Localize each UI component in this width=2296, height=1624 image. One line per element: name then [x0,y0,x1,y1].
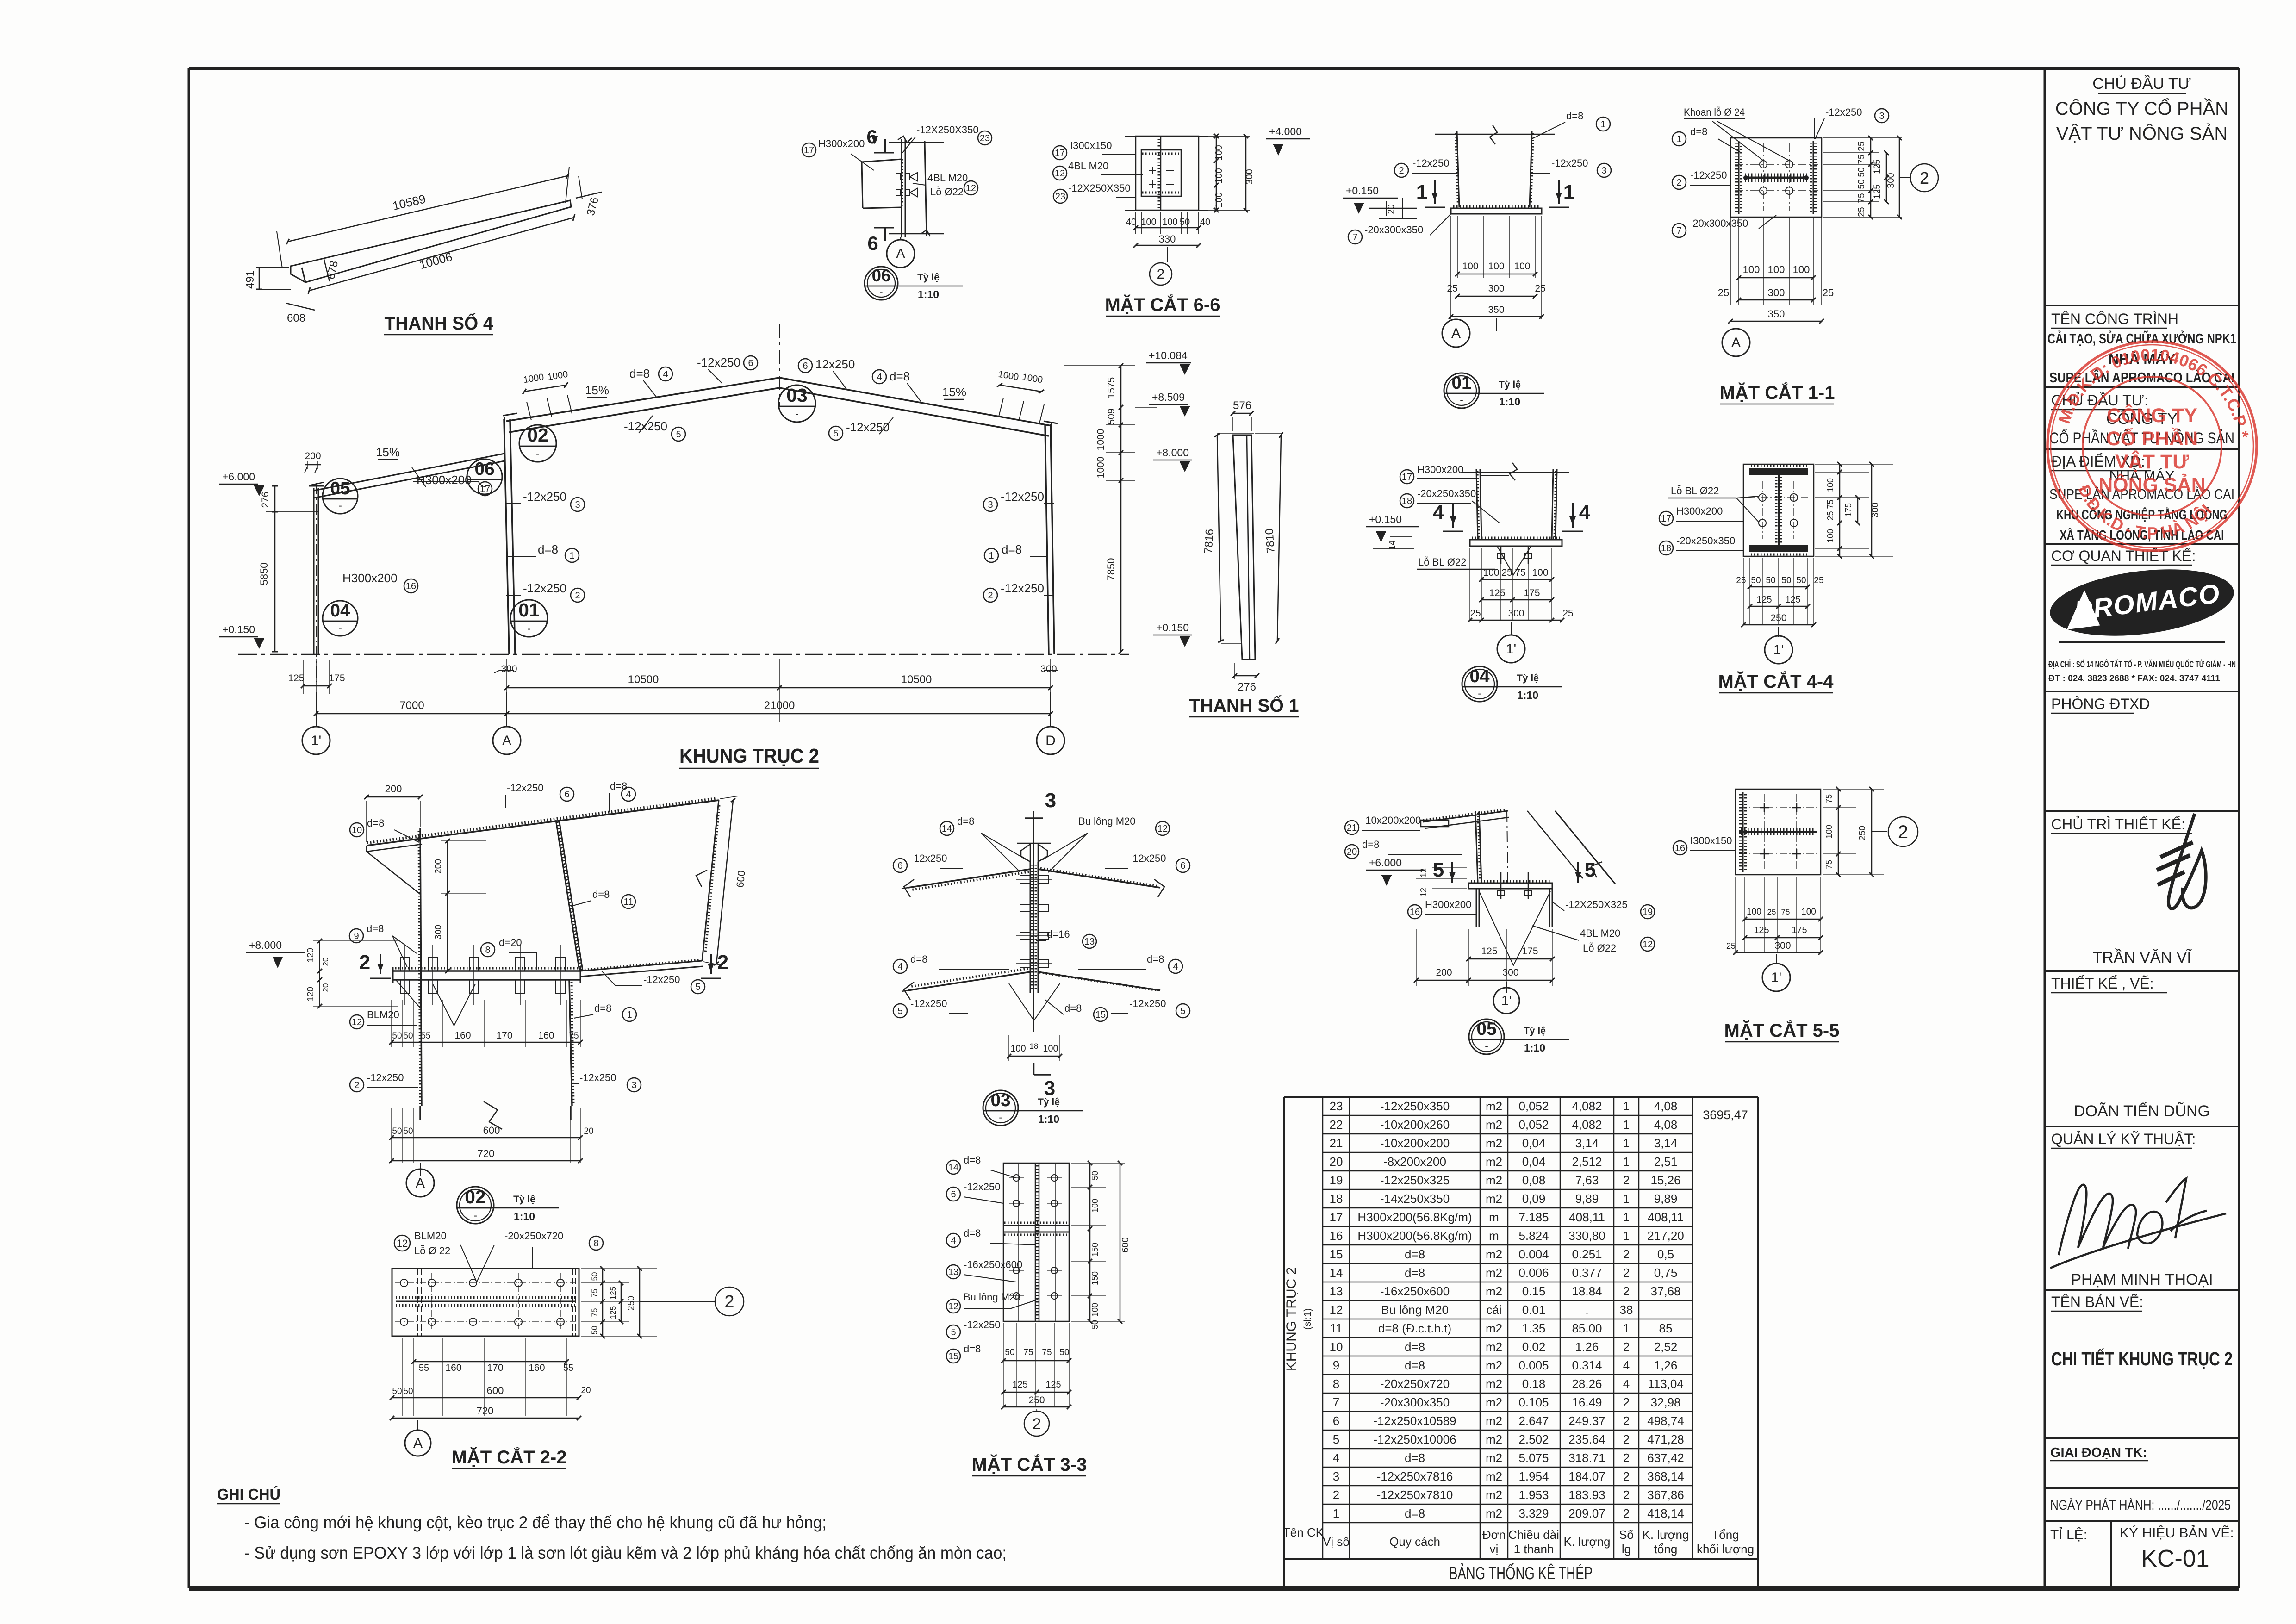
svg-text:MẶT CẮT 6-6: MẶT CẮT 6-6 [1105,294,1220,315]
svg-text:m2: m2 [1486,1488,1502,1502]
svg-text:CƠ QUAN THIẾT KẾ:: CƠ QUAN THIẾT KẾ: [2051,548,2196,564]
svg-text:15: 15 [948,1351,958,1362]
svg-text:1: 1 [627,1010,632,1020]
svg-text:55: 55 [419,1363,429,1373]
svg-text:25: 25 [1857,141,1867,151]
svg-text:21: 21 [1330,1136,1343,1150]
svg-text:5: 5 [951,1327,956,1338]
svg-text:25: 25 [1718,287,1729,299]
svg-text:8: 8 [485,945,490,955]
svg-text:491: 491 [244,270,256,289]
svg-text:25: 25 [1447,283,1457,294]
svg-text:3,14: 3,14 [1575,1136,1599,1150]
svg-text:9,89: 9,89 [1654,1192,1678,1206]
svg-text:-12x250: -12x250 [624,419,667,433]
svg-text:d=16: d=16 [1047,928,1070,940]
svg-text:10500: 10500 [901,673,932,686]
svg-text:318.71: 318.71 [1568,1451,1605,1465]
svg-text:10: 10 [352,825,362,835]
svg-text:0,04: 0,04 [1522,1155,1546,1169]
svg-text:38: 38 [1620,1303,1633,1317]
svg-text:0.006: 0.006 [1518,1266,1549,1280]
svg-text:16: 16 [1675,843,1685,853]
svg-text:55: 55 [563,1363,573,1373]
svg-text:-: - [999,1111,1002,1123]
svg-text:1:10: 1:10 [1499,396,1520,408]
svg-text:m2: m2 [1486,1247,1502,1261]
svg-text:125: 125 [1756,595,1772,605]
svg-text:5: 5 [833,429,838,439]
svg-text:7.185: 7.185 [1518,1210,1549,1224]
svg-text:25: 25 [1823,287,1834,299]
svg-text:160: 160 [454,1030,471,1041]
svg-text:2: 2 [724,1292,734,1312]
svg-text:-12x250: -12x250 [1001,490,1044,504]
svg-text:4: 4 [1333,1451,1339,1465]
svg-text:d=8: d=8 [1405,1340,1425,1354]
svg-text:K. lượng: K. lượng [1643,1528,1689,1542]
svg-text:6: 6 [564,790,569,800]
svg-text:200: 200 [434,859,443,874]
svg-text:H300x200: H300x200 [818,138,865,149]
svg-text:-12x250x7816: -12x250x7816 [1377,1469,1453,1483]
svg-text:300: 300 [501,664,517,674]
svg-text:600: 600 [1120,1237,1131,1252]
svg-text:50: 50 [590,1326,599,1335]
svg-text:m2: m2 [1486,1136,1502,1150]
svg-text:-12x250: -12x250 [964,1319,1001,1331]
svg-text:Khoan lỗ Ø 24: Khoan lỗ Ø 24 [1684,106,1745,118]
svg-text:+8.509: +8.509 [1152,391,1185,403]
svg-text:Số: Số [1619,1528,1634,1542]
svg-text:-12x250: -12x250 [523,490,566,504]
svg-text:25 75: 25 75 [1826,499,1835,520]
svg-text:0.15: 0.15 [1522,1284,1546,1298]
svg-text:21: 21 [1347,823,1357,833]
svg-text:+0.150: +0.150 [1369,513,1402,525]
svg-text:17: 17 [1055,148,1065,158]
svg-text:-: - [338,499,342,511]
svg-text:+8.000: +8.000 [1156,447,1189,459]
svg-text:1000: 1000 [1095,457,1106,479]
svg-text:ĐT : 024. 3823 2688 * FAX: 024: ĐT : 024. 3823 2688 * FAX: 024. 3747 411… [2048,674,2220,684]
svg-text:Tỳ lệ: Tỳ lệ [1517,673,1539,684]
svg-text:-12x250: -12x250 [643,974,680,985]
svg-text:-12x250: -12x250 [1690,169,1727,181]
svg-text:125: 125 [1873,159,1882,174]
svg-text:0,75: 0,75 [1654,1266,1678,1280]
svg-text:13: 13 [1084,937,1095,947]
svg-text:6: 6 [951,1189,956,1200]
svg-text:2: 2 [1920,168,1929,187]
svg-text:50: 50 [1857,179,1867,189]
svg-text:PHẠM MINH THOẠI: PHẠM MINH THOẠI [2071,1271,2213,1288]
svg-text:150: 150 [1090,1271,1100,1285]
svg-text:GHI CHÚ: GHI CHÚ [217,1486,280,1503]
svg-text:12: 12 [352,1017,362,1027]
svg-text:15: 15 [1095,1010,1106,1020]
svg-text:03: 03 [990,1090,1010,1110]
svg-text:-12x250: -12x250 [1129,852,1166,864]
svg-text:-12x250: -12x250 [1825,106,1862,118]
svg-text:-12x250: -12x250 [1001,581,1044,595]
svg-text:+6.000: +6.000 [222,471,255,483]
svg-text:m2: m2 [1486,1506,1502,1520]
svg-text:-12x250x10006: -12x250x10006 [1373,1432,1456,1446]
svg-text:22: 22 [1330,1118,1343,1132]
svg-text:100: 100 [1462,261,1478,272]
svg-text:300: 300 [1040,664,1057,674]
svg-text:-12x250x7810: -12x250x7810 [1377,1488,1453,1502]
svg-text:300: 300 [1886,173,1896,188]
svg-text:125: 125 [1785,595,1800,605]
svg-text:4,082: 4,082 [1572,1099,1602,1113]
svg-text:170: 170 [487,1363,503,1373]
svg-text:1.954: 1.954 [1518,1469,1549,1483]
svg-text:125: 125 [609,1287,617,1300]
svg-text:100: 100 [1532,567,1548,578]
svg-text:5: 5 [897,1006,902,1016]
svg-text:m2: m2 [1486,1118,1502,1132]
svg-text:Tỳ lệ: Tỳ lệ [917,272,940,283]
svg-text:4,08: 4,08 [1654,1099,1678,1113]
svg-text:6: 6 [866,126,877,148]
svg-text:0.105: 0.105 [1518,1395,1549,1409]
svg-text:MẶT CẮT 2-2: MẶT CẮT 2-2 [452,1446,567,1468]
svg-text:1.953: 1.953 [1518,1488,1549,1502]
svg-text:12: 12 [966,183,976,193]
svg-text:03: 03 [786,385,807,406]
svg-text:12: 12 [1055,168,1065,179]
svg-text:20: 20 [1347,847,1357,857]
svg-text:75: 75 [1824,860,1834,869]
svg-text:3: 3 [1601,166,1606,176]
svg-text:75: 75 [1023,1348,1033,1357]
svg-text:d=8: d=8 [594,1002,611,1014]
svg-text:Tên CK: Tên CK [1283,1525,1324,1539]
svg-text:-12x250: -12x250 [964,1181,1001,1193]
svg-text:d=8: d=8 [957,815,974,827]
svg-text:408,11: 408,11 [1648,1210,1684,1224]
svg-text:Lỗ BL Ø22: Lỗ BL Ø22 [1671,485,1719,497]
svg-text:m2: m2 [1486,1173,1502,1187]
svg-text:BẢNG THỐNG KÊ THÉP: BẢNG THỐNG KÊ THÉP [1449,1562,1593,1583]
svg-text:Tỳ lệ: Tỳ lệ [1038,1097,1060,1108]
svg-text:Lỗ Ø22: Lỗ Ø22 [930,186,964,198]
svg-text:55: 55 [421,1031,430,1041]
svg-text:VẬT TƯ NÔNG SẢN: VẬT TƯ NÔNG SẢN [2056,123,2228,144]
svg-text:d=8 (Đ.c.t.h.t): d=8 (Đ.c.t.h.t) [1378,1321,1451,1335]
svg-text:25: 25 [1726,941,1736,951]
svg-text:4: 4 [1173,962,1178,972]
svg-text:-20x300x350: -20x300x350 [1689,218,1748,229]
svg-text:d=8: d=8 [610,780,627,792]
svg-text:200: 200 [1436,967,1452,978]
svg-text:4BL M20: 4BL M20 [1580,927,1620,939]
svg-text:75: 75 [1857,154,1867,164]
svg-text:CÔNG TY CỔ PHẦN: CÔNG TY CỔ PHẦN [2055,97,2228,119]
svg-text:KHUNG TRỤC 2: KHUNG TRỤC 2 [1284,1267,1299,1371]
svg-text:498,74: 498,74 [1647,1414,1684,1428]
svg-text:16: 16 [1410,907,1420,917]
svg-text:-12x250: -12x250 [1412,157,1450,169]
svg-text:2: 2 [1623,1488,1630,1502]
svg-text:QUẢN LÝ KỸ THUẬT:: QUẢN LÝ KỸ THUẬT: [2051,1131,2196,1147]
svg-text:175: 175 [1522,946,1538,957]
svg-text:5: 5 [1585,859,1596,881]
svg-text:125: 125 [1012,1380,1027,1390]
svg-text:Tổng: Tổng [1711,1528,1739,1542]
svg-text:5850: 5850 [258,563,270,585]
svg-text:m2: m2 [1486,1155,1502,1169]
svg-text:25: 25 [1767,908,1776,916]
svg-text:23: 23 [1055,192,1065,202]
svg-text:1:10: 1:10 [1517,689,1538,701]
svg-text:-: - [536,448,540,460]
svg-text:04: 04 [330,601,350,621]
svg-text:5.075: 5.075 [1518,1451,1549,1465]
svg-text:15%: 15% [585,383,609,397]
svg-text:13: 13 [1330,1284,1343,1298]
svg-text:4: 4 [1623,1358,1630,1372]
svg-text:d=20: d=20 [499,937,522,948]
svg-text:75: 75 [1857,193,1867,203]
svg-text:1: 1 [1333,1506,1339,1520]
svg-text:2: 2 [1623,1395,1630,1409]
svg-text:1: 1 [569,551,574,561]
svg-text:300: 300 [1768,287,1785,299]
svg-text:11: 11 [624,897,634,907]
svg-text:100: 100 [1747,907,1761,917]
svg-text:125: 125 [1481,946,1497,957]
svg-text:D: D [1045,733,1056,748]
svg-text:3: 3 [631,1080,636,1090]
svg-text:-12x250: -12x250 [910,852,947,864]
svg-text:200: 200 [305,451,321,461]
svg-text:ĐỊA CHỈ : SỐ 14 NGÔ TẤT TỐ - P: ĐỊA CHỈ : SỐ 14 NGÔ TẤT TỐ - P. VĂN MIẾU… [2048,660,2236,670]
svg-text:-16x250x600: -16x250x600 [964,1259,1022,1270]
svg-text:d=8: d=8 [910,953,927,965]
svg-text:12x250: 12x250 [815,357,855,371]
svg-text:d=8: d=8 [367,817,384,829]
svg-text:1: 1 [1623,1210,1630,1224]
svg-text:-12x250: -12x250 [1129,998,1166,1009]
svg-text:1: 1 [1676,134,1681,144]
svg-text:m: m [1489,1210,1499,1224]
svg-text:100: 100 [1768,264,1785,275]
svg-text:50: 50 [392,1031,402,1041]
svg-text:3.329: 3.329 [1518,1506,1549,1520]
svg-text:471,28: 471,28 [1647,1432,1684,1446]
svg-text:1000: 1000 [1095,429,1106,451]
svg-text:-: - [483,480,486,492]
svg-text:4,082: 4,082 [1572,1118,1602,1132]
svg-text:BLM20: BLM20 [367,1009,399,1020]
svg-text:40: 40 [1126,217,1136,227]
svg-text:50: 50 [403,1126,413,1136]
svg-text:cái: cái [1486,1303,1501,1317]
svg-text:100: 100 [1010,1044,1026,1054]
svg-text:12: 12 [1157,824,1168,834]
svg-text:m2: m2 [1486,1469,1502,1483]
svg-text:-12x250: -12x250 [367,1072,404,1083]
svg-text:6: 6 [867,232,878,254]
svg-text:2,512: 2,512 [1572,1155,1602,1169]
svg-text:m2: m2 [1486,1432,1502,1446]
svg-text:50: 50 [1796,576,1806,585]
svg-text:100: 100 [1514,261,1530,272]
svg-text:1: 1 [1623,1099,1630,1113]
svg-text:vị: vị [1490,1542,1499,1556]
svg-text:6: 6 [1180,861,1185,871]
svg-text:-12X250X325: -12X250X325 [1565,899,1628,910]
svg-text:6: 6 [897,861,902,871]
svg-text:tổng: tổng [1654,1542,1678,1556]
svg-text:0,04: 0,04 [1522,1136,1546,1150]
svg-text:m2: m2 [1486,1395,1502,1409]
svg-text:3: 3 [575,500,580,510]
svg-text:H300x200: H300x200 [1425,899,1471,910]
svg-text:250: 250 [1858,826,1867,840]
svg-text:Vị số: Vị số [1323,1535,1350,1549]
svg-text:d=8: d=8 [538,542,558,556]
svg-text:250: 250 [1770,613,1786,623]
svg-text:-: - [1478,687,1481,699]
svg-text:5: 5 [1180,1006,1185,1016]
svg-text:418,14: 418,14 [1647,1506,1684,1520]
svg-text:20: 20 [1330,1155,1343,1169]
svg-text:18: 18 [1402,496,1412,506]
svg-text:THANH SỐ 4: THANH SỐ 4 [385,312,494,334]
svg-text:2: 2 [359,951,370,974]
svg-text:1': 1' [311,733,321,748]
svg-text:-12x250: -12x250 [579,1072,616,1083]
svg-text:50: 50 [392,1126,402,1136]
svg-text:3: 3 [1333,1469,1339,1483]
svg-text:K. lượng: K. lượng [1564,1535,1611,1549]
svg-text:75: 75 [1781,908,1790,916]
svg-text:368,14: 368,14 [1647,1469,1684,1483]
svg-text:10: 10 [1330,1340,1343,1354]
svg-text:d=8: d=8 [1566,110,1583,122]
svg-text:175: 175 [1792,925,1807,935]
svg-text:1.26: 1.26 [1575,1340,1599,1354]
svg-text:175: 175 [1524,588,1540,598]
svg-text:02: 02 [527,424,548,446]
svg-text:-12x250x350: -12x250x350 [1380,1099,1450,1113]
svg-text:100: 100 [1743,264,1760,275]
svg-text:A: A [896,246,905,261]
svg-text:0,09: 0,09 [1522,1192,1546,1206]
svg-text:276: 276 [1238,681,1256,693]
svg-text:Tỳ lệ: Tỳ lệ [513,1194,535,1205]
svg-text:170: 170 [496,1030,512,1041]
svg-text:300: 300 [1870,502,1880,517]
svg-text:125: 125 [609,1306,617,1319]
svg-text:0,052: 0,052 [1518,1118,1549,1132]
svg-text:13: 13 [948,1267,958,1277]
svg-text:2: 2 [1623,1506,1630,1520]
svg-text:100: 100 [1214,168,1224,183]
svg-text:MẶT CẮT 1-1: MẶT CẮT 1-1 [1720,382,1835,403]
svg-text:12: 12 [1419,888,1428,897]
svg-text:17: 17 [1661,514,1671,524]
svg-text:-14x250x350: -14x250x350 [1380,1192,1450,1206]
svg-text:CẢI TẠO, SỬA CHỮA XƯỞNG NPK1: CẢI TẠO, SỬA CHỮA XƯỞNG NPK1 [2047,330,2236,347]
svg-text:9: 9 [1333,1358,1339,1372]
svg-text:7: 7 [1352,232,1357,243]
svg-text:06: 06 [872,266,891,285]
svg-text:3: 3 [1044,1077,1055,1100]
svg-text:4: 4 [951,1236,956,1246]
svg-text:CÔNG TY: CÔNG TY [2107,404,2197,427]
svg-text:1: 1 [1563,181,1574,204]
svg-text:300: 300 [434,925,443,940]
svg-text:PHÒNG ĐTXD: PHÒNG ĐTXD [2051,696,2150,712]
svg-text:300: 300 [1774,940,1791,951]
svg-text:16: 16 [1330,1229,1343,1243]
svg-text:100: 100 [1162,217,1177,227]
svg-text:100: 100 [1793,264,1810,275]
svg-text:-20x250x350: -20x250x350 [1676,535,1735,547]
svg-text:+4.000: +4.000 [1269,125,1302,137]
svg-text:2: 2 [354,1080,359,1090]
svg-text:17: 17 [1402,472,1412,482]
svg-text:-: - [879,286,883,298]
svg-text:01: 01 [1451,373,1471,393]
svg-text:d=8: d=8 [367,923,384,934]
svg-text:3: 3 [1879,111,1884,121]
svg-text:CHỦ ĐẦU TƯ: CHỦ ĐẦU TƯ [2092,75,2191,93]
svg-text:8: 8 [1333,1377,1339,1391]
svg-text:-: - [527,622,531,635]
svg-text:125: 125 [1045,1380,1061,1390]
svg-text:Đơn: Đơn [1482,1528,1506,1542]
svg-text:4: 4 [1623,1377,1630,1391]
svg-text:2: 2 [1623,1284,1630,1298]
svg-text:H300x200: H300x200 [342,571,398,585]
svg-text:300: 300 [1488,283,1504,294]
svg-text:-10x200x200: -10x200x200 [1362,815,1421,826]
svg-text:19: 19 [1330,1173,1343,1187]
svg-text:- Gia công mới hệ khung cột, k: - Gia công mới hệ khung cột, kèo trục 2 … [244,1513,827,1532]
svg-text:50: 50 [1766,576,1775,585]
svg-text:25: 25 [1501,567,1512,578]
svg-text:120: 120 [306,948,316,963]
svg-text:Lỗ BL Ø22: Lỗ BL Ø22 [1418,556,1466,568]
svg-text:2: 2 [1033,1415,1041,1433]
svg-text:15: 15 [1330,1247,1343,1261]
svg-text:CHI TIẾT KHUNG TRỤC 2: CHI TIẾT KHUNG TRỤC 2 [2051,1348,2233,1369]
svg-text:2: 2 [1623,1414,1630,1428]
svg-text:05: 05 [330,479,350,498]
svg-text:d=8: d=8 [964,1227,981,1239]
svg-text:125: 125 [288,673,304,684]
svg-text:d=8: d=8 [1002,542,1022,556]
svg-text:12: 12 [1419,868,1428,877]
svg-text:14: 14 [1330,1266,1343,1280]
svg-text:-12x250: -12x250 [910,998,947,1009]
svg-text:-20x300x350: -20x300x350 [1364,224,1423,236]
svg-text:04: 04 [1469,666,1490,686]
svg-text:4: 4 [877,372,882,382]
svg-text:0,08: 0,08 [1522,1173,1546,1187]
svg-text:2: 2 [1157,267,1165,282]
svg-text:600: 600 [487,1385,504,1396]
svg-text:d=8: d=8 [1147,953,1164,965]
svg-text:I300x150: I300x150 [1690,835,1732,846]
svg-text:THANH SỐ 1: THANH SỐ 1 [1189,695,1299,716]
